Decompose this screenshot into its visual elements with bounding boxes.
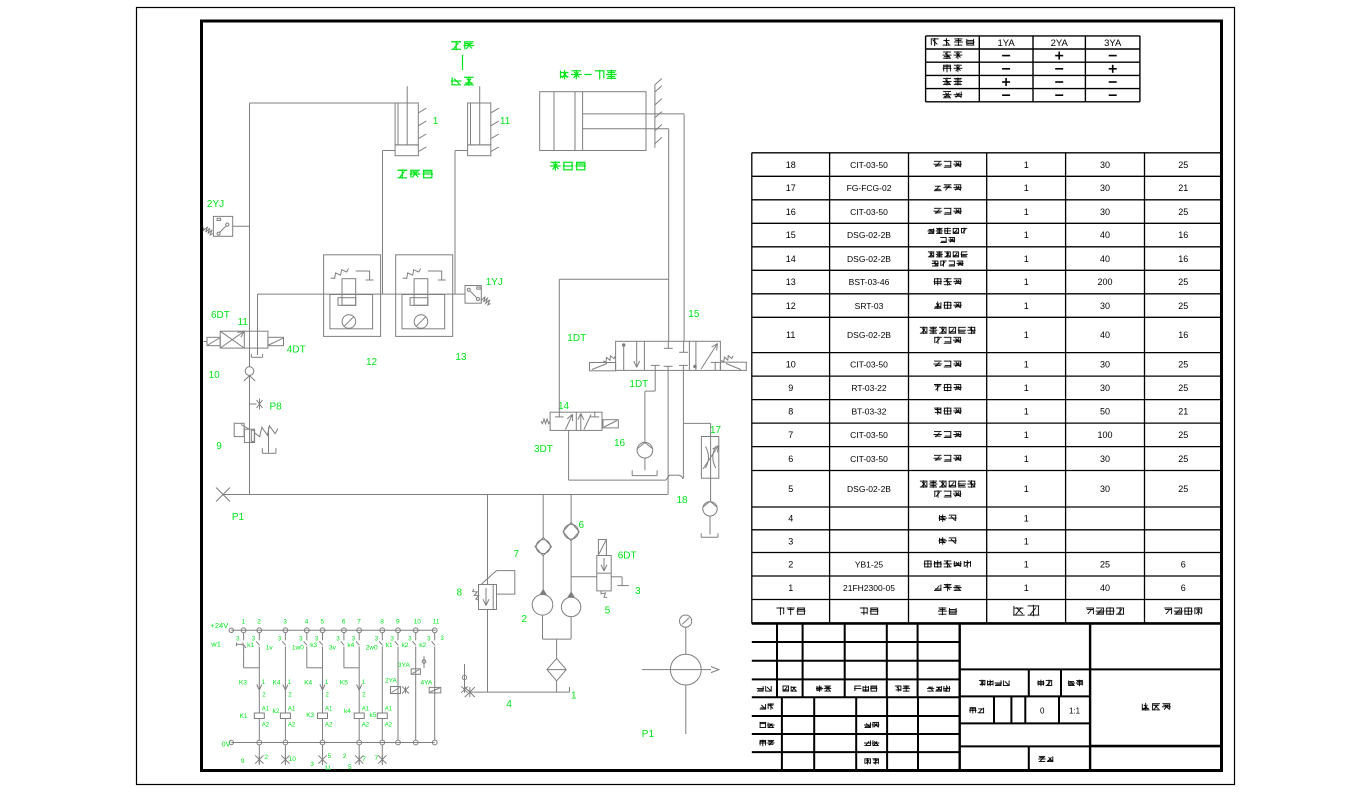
svg-text:k1: k1 <box>247 642 254 649</box>
svg-text:7: 7 <box>514 549 520 560</box>
svg-text:12: 12 <box>366 357 378 368</box>
svg-text:3: 3 <box>635 586 641 597</box>
svg-text:K4: K4 <box>304 679 312 686</box>
svg-text:CIT-03-50: CIT-03-50 <box>850 207 888 217</box>
svg-text:11: 11 <box>238 317 249 328</box>
svg-text:11: 11 <box>325 765 332 772</box>
svg-text:1: 1 <box>571 691 577 702</box>
svg-text:k4: k4 <box>344 708 351 715</box>
svg-text:6: 6 <box>342 619 346 626</box>
svg-text:1: 1 <box>1024 484 1029 494</box>
svg-text:0V: 0V <box>222 740 231 749</box>
svg-text:1: 1 <box>1024 536 1029 546</box>
svg-text:1: 1 <box>1024 277 1029 287</box>
svg-text:17: 17 <box>786 183 796 193</box>
svg-text:3YA: 3YA <box>398 662 410 669</box>
svg-text:1: 1 <box>242 619 246 626</box>
svg-text:1: 1 <box>1024 330 1029 340</box>
svg-text:30: 30 <box>1100 207 1110 217</box>
svg-text:30: 30 <box>1100 484 1110 494</box>
svg-text:30: 30 <box>1100 454 1110 464</box>
svg-text:25: 25 <box>1100 560 1110 570</box>
svg-text:50: 50 <box>1100 407 1110 417</box>
svg-text:A2: A2 <box>362 723 370 729</box>
svg-text:14: 14 <box>786 254 796 264</box>
svg-text:6DT: 6DT <box>618 551 637 562</box>
svg-text:1YJ: 1YJ <box>486 277 503 288</box>
svg-text:1DT: 1DT <box>629 379 648 390</box>
svg-text:40: 40 <box>1100 583 1110 593</box>
svg-text:18: 18 <box>677 495 689 506</box>
svg-text:16: 16 <box>786 207 796 217</box>
svg-text:30: 30 <box>1100 301 1110 311</box>
svg-text:25: 25 <box>1178 207 1188 217</box>
svg-text:21: 21 <box>1178 183 1188 193</box>
svg-text:1: 1 <box>1024 383 1029 393</box>
svg-text:9: 9 <box>396 619 400 626</box>
svg-text:13: 13 <box>455 352 467 363</box>
svg-text:1: 1 <box>1024 514 1029 524</box>
svg-text:15: 15 <box>688 309 700 320</box>
svg-text:2w0: 2w0 <box>366 645 378 652</box>
svg-text:25: 25 <box>1178 360 1188 370</box>
svg-text:DSG-02-2B: DSG-02-2B <box>847 230 891 240</box>
svg-text:A1: A1 <box>288 707 296 713</box>
svg-text:3DT: 3DT <box>534 444 553 455</box>
svg-text:DSG-02-2B: DSG-02-2B <box>847 484 891 494</box>
svg-text:40: 40 <box>1100 330 1110 340</box>
svg-text:1: 1 <box>1024 360 1029 370</box>
svg-text:25: 25 <box>1178 484 1188 494</box>
svg-text:10: 10 <box>786 360 796 370</box>
svg-text:1: 1 <box>1024 160 1029 170</box>
svg-text:1: 1 <box>1024 254 1029 264</box>
svg-text:5: 5 <box>348 764 352 771</box>
svg-text:16: 16 <box>614 438 626 449</box>
svg-text:9: 9 <box>788 383 793 393</box>
svg-text:2YJ: 2YJ <box>207 199 224 210</box>
svg-text:2: 2 <box>788 560 793 570</box>
svg-text:BT-03-32: BT-03-32 <box>852 407 887 417</box>
svg-text:16: 16 <box>1178 254 1188 264</box>
svg-text:8: 8 <box>457 588 463 599</box>
svg-text:25: 25 <box>1178 430 1188 440</box>
svg-text:25: 25 <box>1178 454 1188 464</box>
svg-text:A2: A2 <box>385 723 393 729</box>
svg-text:A2: A2 <box>262 723 270 729</box>
svg-text:K4: K4 <box>273 679 281 686</box>
svg-text:5: 5 <box>605 606 611 617</box>
svg-text:1: 1 <box>1024 183 1029 193</box>
svg-text:FG-FCG-02: FG-FCG-02 <box>847 183 892 193</box>
svg-text:3: 3 <box>788 536 793 546</box>
svg-text:CIT-03-50: CIT-03-50 <box>850 360 888 370</box>
svg-text:6DT: 6DT <box>211 310 230 321</box>
svg-text:17: 17 <box>710 425 722 436</box>
svg-text:10: 10 <box>209 370 221 381</box>
svg-text:P1: P1 <box>232 512 245 523</box>
svg-text:2: 2 <box>257 619 261 626</box>
svg-text:9: 9 <box>216 441 222 452</box>
svg-text:25: 25 <box>1178 160 1188 170</box>
svg-text:2: 2 <box>264 754 268 761</box>
svg-text:2: 2 <box>522 614 528 625</box>
svg-text:1v: 1v <box>266 645 274 652</box>
svg-text:2YA: 2YA <box>1051 38 1069 49</box>
svg-text:RT-03-22: RT-03-22 <box>851 383 887 393</box>
svg-text:11: 11 <box>786 330 795 340</box>
svg-text:30: 30 <box>1100 183 1110 193</box>
svg-text:1: 1 <box>788 583 793 593</box>
svg-text:A1: A1 <box>385 707 393 713</box>
svg-text:1w0: 1w0 <box>292 645 304 652</box>
svg-text:4DT: 4DT <box>287 345 306 356</box>
svg-text:7: 7 <box>357 619 361 626</box>
svg-text:1: 1 <box>1024 454 1029 464</box>
svg-text:30: 30 <box>1100 383 1110 393</box>
svg-text:1DT: 1DT <box>567 333 586 344</box>
svg-text:P1: P1 <box>642 729 655 740</box>
svg-text:1: 1 <box>1024 207 1029 217</box>
svg-text:k2: k2 <box>419 642 426 649</box>
svg-text:0: 0 <box>1040 706 1045 715</box>
svg-text:5: 5 <box>321 619 325 626</box>
svg-text:11: 11 <box>500 116 511 127</box>
svg-text:7: 7 <box>375 755 379 762</box>
svg-text:K3: K3 <box>306 712 314 719</box>
svg-text:2YA: 2YA <box>385 678 397 685</box>
svg-text:3: 3 <box>283 619 287 626</box>
svg-text:k5: k5 <box>370 712 377 719</box>
svg-text:11: 11 <box>433 619 440 626</box>
svg-text:DSG-02-2B: DSG-02-2B <box>847 330 891 340</box>
svg-text:10: 10 <box>289 756 297 763</box>
svg-text:6: 6 <box>788 454 793 464</box>
svg-text:200: 200 <box>1097 277 1112 287</box>
svg-text:K3: K3 <box>239 679 247 686</box>
svg-text:SRT-03: SRT-03 <box>855 301 884 311</box>
svg-text:16: 16 <box>1178 330 1188 340</box>
svg-text:30: 30 <box>1100 160 1110 170</box>
svg-text:18: 18 <box>786 160 796 170</box>
svg-text:6: 6 <box>1181 560 1186 570</box>
svg-text:100: 100 <box>1097 430 1112 440</box>
svg-text:1: 1 <box>1024 430 1029 440</box>
svg-text:3: 3 <box>310 761 314 768</box>
svg-text:1: 1 <box>1024 407 1029 417</box>
svg-text:7: 7 <box>362 756 366 763</box>
svg-text:8: 8 <box>788 407 793 417</box>
svg-text:12: 12 <box>786 301 796 311</box>
svg-text:1: 1 <box>433 116 439 127</box>
svg-text:8: 8 <box>380 619 384 626</box>
svg-text:5: 5 <box>328 753 332 760</box>
svg-text:15: 15 <box>786 230 796 240</box>
svg-text:10: 10 <box>414 619 422 626</box>
svg-text:6: 6 <box>1181 583 1186 593</box>
svg-text:A1: A1 <box>325 707 333 713</box>
svg-text:CIT-03-50: CIT-03-50 <box>850 430 888 440</box>
svg-text:16: 16 <box>1178 230 1188 240</box>
svg-text:1:1: 1:1 <box>1069 706 1081 715</box>
svg-text:YB1-25: YB1-25 <box>855 560 884 570</box>
svg-text:CIT-03-50: CIT-03-50 <box>850 160 888 170</box>
svg-text:6: 6 <box>579 520 585 531</box>
svg-text:40: 40 <box>1100 230 1110 240</box>
svg-text:21: 21 <box>1178 407 1188 417</box>
svg-text:5: 5 <box>788 484 793 494</box>
svg-text:1: 1 <box>1024 230 1029 240</box>
svg-text:1: 1 <box>1024 301 1029 311</box>
svg-text:K1: K1 <box>240 713 248 720</box>
svg-text:4: 4 <box>506 699 512 710</box>
svg-text:k2: k2 <box>402 642 409 649</box>
svg-text:3v: 3v <box>329 645 337 652</box>
svg-text:7: 7 <box>788 430 793 440</box>
svg-text:4: 4 <box>305 619 309 626</box>
svg-text:k1: k1 <box>386 642 393 649</box>
svg-text:A2: A2 <box>288 723 296 729</box>
svg-text:k3: k3 <box>310 642 317 649</box>
svg-text:30: 30 <box>1100 360 1110 370</box>
svg-text:3YA: 3YA <box>1104 38 1122 49</box>
svg-text:40: 40 <box>1100 254 1110 264</box>
svg-text:A2: A2 <box>325 723 333 729</box>
svg-text:4: 4 <box>788 514 793 524</box>
svg-text:25: 25 <box>1178 301 1188 311</box>
svg-text:CIT-03-50: CIT-03-50 <box>850 454 888 464</box>
svg-text:k2: k2 <box>273 708 280 715</box>
svg-text:A1: A1 <box>262 707 270 713</box>
svg-text:P8: P8 <box>270 402 283 413</box>
svg-text:1: 1 <box>1024 560 1029 570</box>
svg-text:k4: k4 <box>347 642 354 649</box>
svg-text:w1: w1 <box>210 640 221 649</box>
svg-text:25: 25 <box>1178 277 1188 287</box>
svg-text:13: 13 <box>786 277 796 287</box>
svg-text:1: 1 <box>1024 583 1029 593</box>
svg-text:BST-03-46: BST-03-46 <box>849 277 890 287</box>
svg-text:DSG-02-2B: DSG-02-2B <box>847 254 891 264</box>
svg-text:21FH2300-05: 21FH2300-05 <box>843 583 895 593</box>
svg-text:4YA: 4YA <box>421 680 433 687</box>
svg-text:A1: A1 <box>362 707 370 713</box>
svg-text:1YA: 1YA <box>997 38 1015 49</box>
svg-text:9: 9 <box>241 758 245 765</box>
svg-text:2: 2 <box>343 753 347 760</box>
svg-text:K5: K5 <box>340 679 348 686</box>
svg-text:25: 25 <box>1178 383 1188 393</box>
svg-text:+24V: +24V <box>211 621 229 630</box>
